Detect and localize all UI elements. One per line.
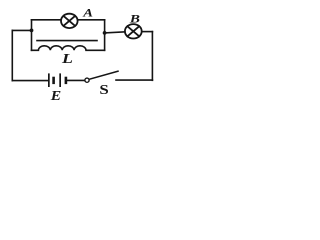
wire tap left (junction to outer left wire)	[12, 29, 31, 31]
wire inner-right vertical	[104, 20, 106, 51]
battery E	[48, 73, 67, 87]
wire top-right (inner rect top, right of lamp A)	[78, 19, 105, 21]
wire outer-left vertical	[11, 30, 13, 80]
wire junction to lamp B	[105, 32, 125, 33]
wire inner-left vertical	[31, 20, 33, 51]
inductor core bar	[37, 40, 97, 42]
svg-text:S: S	[99, 82, 108, 97]
switch S blade	[89, 71, 118, 79]
wire outer-right vertical	[151, 32, 153, 81]
inductor L coil	[32, 46, 105, 51]
svg-text:A: A	[82, 6, 93, 19]
svg-text:B: B	[129, 12, 140, 25]
switch S pivot	[85, 78, 89, 82]
wire battery to switch	[67, 79, 84, 81]
wire switch to bottom-right corner	[116, 79, 152, 81]
node left junction	[30, 29, 34, 33]
lamp B	[125, 24, 142, 38]
lamp A	[61, 14, 78, 28]
wire bottom-left (to battery)	[12, 80, 48, 82]
node right junction	[103, 31, 107, 35]
svg-text:L: L	[61, 51, 73, 66]
wire lamp B to right corner	[142, 31, 153, 33]
wire top-left (inner rect top, left of lamp A)	[32, 19, 62, 21]
svg-text:E: E	[50, 89, 62, 102]
